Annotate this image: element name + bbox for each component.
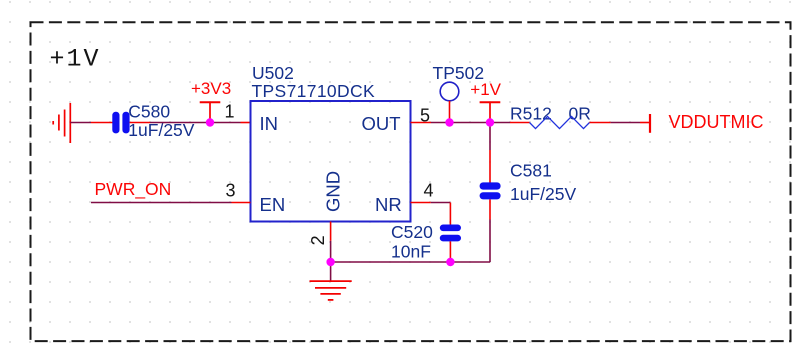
junction node ground net (326, 258, 334, 266)
svg-text:VDDUTMIC: VDDUTMIC (669, 112, 764, 132)
svg-text:C580: C580 (128, 101, 170, 121)
wire junction to earth ground (330, 262, 332, 281)
svg-text:U502: U502 (252, 63, 294, 83)
svg-text:IN: IN (260, 113, 279, 134)
svg-text:+1V: +1V (470, 80, 501, 99)
pin stub U502 pin 5 (411, 122, 432, 124)
svg-text:C520: C520 (391, 222, 433, 242)
pin stub C520 top pin (449, 203, 451, 225)
pin stub R512 right lead (590, 122, 611, 124)
pin stub C580 right pin (130, 122, 150, 124)
svg-text:5: 5 (420, 106, 430, 126)
junction node +1V tap (486, 118, 494, 126)
pin stub R512 left lead (510, 122, 530, 124)
port terminator VDDUTMIC (640, 114, 650, 133)
svg-text:R512: R512 (510, 104, 552, 124)
ground (left chassis ground for C580) (53, 103, 70, 143)
wire PWR_ON to U502 pin 3 (91, 202, 232, 204)
capacitor C520 (440, 225, 461, 242)
pin stub U502 pin 1 (241, 122, 251, 124)
power symbol +3V3 (200, 102, 221, 122)
svg-text:1: 1 (225, 101, 235, 121)
svg-text:10nF: 10nF (391, 242, 431, 262)
svg-text:C581: C581 (510, 161, 552, 181)
pin stub C520 bottom pin (449, 241, 451, 262)
junction node C520 bottom (446, 258, 454, 266)
capacitor C581 (480, 182, 501, 199)
pin stub C581 bottom pin (489, 199, 491, 219)
svg-text:4: 4 (424, 181, 434, 201)
pin stub U502 pin 2 (330, 222, 332, 241)
wire OUT rail (431, 122, 510, 124)
svg-text:PWR_ON: PWR_ON (95, 179, 172, 200)
pin stub U502 pin 3 (232, 202, 251, 204)
wire C580 to U502 pin 1 (150, 122, 241, 124)
pin stub C580 left pin (91, 122, 113, 124)
wire C581 to bottom rail (489, 220, 491, 263)
wire bottom ground rail (331, 261, 490, 263)
ground (earth symbol below U502) (310, 281, 352, 300)
pin stub TP502 (449, 101, 451, 123)
svg-text:NR: NR (375, 194, 402, 215)
regulator U502 body (251, 101, 411, 222)
svg-text:GND: GND (323, 171, 344, 212)
resistor R512 (530, 116, 590, 128)
svg-text:TPS71710DCK: TPS71710DCK (252, 81, 376, 101)
svg-text:OUT: OUT (362, 113, 401, 134)
wire pin 2 to bottom rail (330, 241, 332, 262)
capacitor C580 (112, 112, 129, 134)
wire R512 to port (611, 122, 640, 124)
junction node TP502 tap (445, 118, 453, 126)
power symbol +1V (480, 102, 501, 122)
pin stub U502 pin 4 (411, 202, 431, 204)
testpoint TP502 (440, 82, 459, 101)
svg-text:0R: 0R (569, 104, 591, 124)
svg-text:+1V: +1V (50, 44, 101, 73)
svg-text:+3V3: +3V3 (191, 79, 231, 98)
svg-text:2: 2 (308, 235, 328, 245)
wire NR to C520 (431, 202, 451, 204)
wire +1V junction down to C581 (489, 123, 491, 151)
junction node +3V3 tap (206, 118, 214, 126)
svg-text:1uF/25V: 1uF/25V (510, 184, 576, 204)
svg-text:3: 3 (226, 180, 236, 200)
wire ground to C580 (70, 122, 91, 124)
pin stub C581 top pin (489, 150, 491, 183)
svg-text:EN: EN (260, 194, 286, 215)
